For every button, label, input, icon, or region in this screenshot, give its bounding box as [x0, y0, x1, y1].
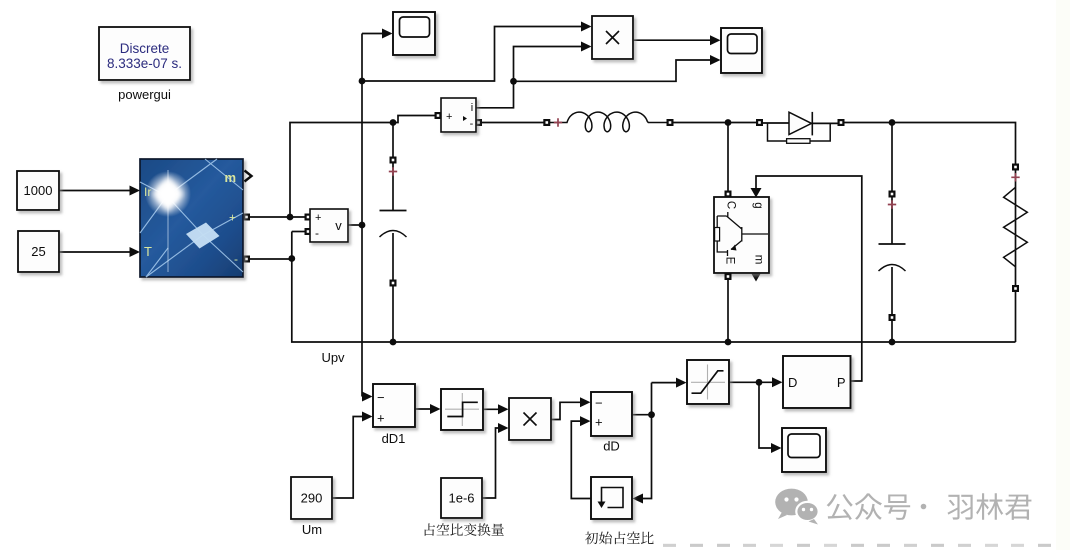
- svg-text:−: −: [377, 390, 385, 405]
- svg-text:−: −: [595, 396, 603, 411]
- svg-text:dD: dD: [603, 439, 620, 454]
- svg-text:g: g: [752, 202, 764, 208]
- svg-text:D: D: [788, 375, 797, 390]
- svg-text:+: +: [315, 212, 321, 224]
- svg-text:P: P: [837, 375, 846, 390]
- svg-text:m: m: [224, 170, 236, 185]
- svg-text:powergui: powergui: [118, 87, 171, 102]
- svg-text:C: C: [725, 201, 737, 209]
- svg-text:290: 290: [301, 491, 323, 506]
- svg-text:+: +: [446, 111, 452, 123]
- svg-text:+: +: [229, 211, 236, 225]
- svg-text:Discrete: Discrete: [120, 41, 170, 56]
- svg-text:+: +: [377, 411, 385, 426]
- svg-text:v: v: [335, 218, 342, 233]
- svg-text:dD1: dD1: [382, 431, 406, 446]
- svg-text:8.333e-07 s.: 8.333e-07 s.: [107, 56, 182, 71]
- svg-text:Upv: Upv: [321, 350, 345, 365]
- svg-text:-: -: [315, 226, 319, 240]
- svg-text:1000: 1000: [24, 183, 53, 198]
- svg-text:i: i: [471, 102, 473, 114]
- svg-text:25: 25: [31, 244, 45, 259]
- svg-text:m: m: [753, 255, 765, 265]
- svg-text:-: -: [234, 252, 238, 266]
- svg-text:Ir: Ir: [144, 185, 151, 199]
- svg-text:T: T: [144, 244, 152, 259]
- svg-text:1e-6: 1e-6: [448, 491, 474, 506]
- svg-text:-: -: [470, 118, 474, 130]
- svg-text:E: E: [724, 257, 736, 265]
- svg-text:Um: Um: [302, 522, 322, 537]
- svg-text:+: +: [595, 415, 603, 430]
